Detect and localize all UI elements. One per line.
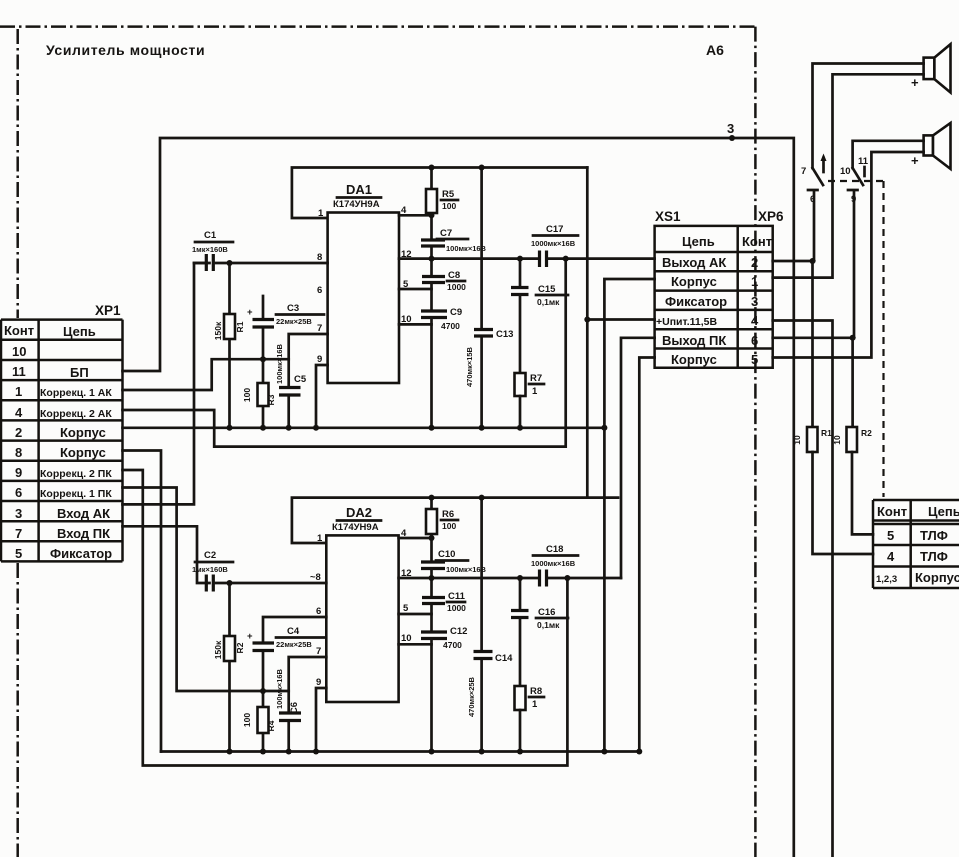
svg-text:1: 1 bbox=[751, 274, 758, 289]
svg-text:6: 6 bbox=[810, 194, 815, 205]
wire: XP1 pin 3 (Вход АК) to C1 bbox=[123, 263, 210, 504]
svg-text:22мк×25В: 22мк×25В bbox=[276, 317, 312, 326]
svg-text:1000: 1000 bbox=[447, 282, 466, 292]
svg-text:1: 1 bbox=[15, 384, 22, 399]
svg-text:Коррекц. 2 ПК: Коррекц. 2 ПК bbox=[40, 468, 112, 480]
capacitor C3 22мк x 25В bbox=[262, 296, 265, 359]
svg-text:7: 7 bbox=[801, 166, 806, 177]
resistor R4 100 bbox=[262, 691, 265, 752]
wire: speaker 1 return to XS1 pin 1 (Корпус) bbox=[773, 74, 924, 277]
junction C3/R3 node bbox=[260, 356, 266, 362]
wire: XS1 pin 6 (Выход ПК) row line left + riser to output 2 bbox=[621, 338, 655, 578]
svg-text:Корпус: Корпус bbox=[60, 445, 106, 460]
capacitor C17 1000мк x 16В (output electrolytic) bbox=[540, 251, 547, 268]
switch arrow symbol bbox=[822, 158, 825, 172]
svg-text:7: 7 bbox=[317, 323, 322, 334]
svg-text:100: 100 bbox=[442, 521, 456, 531]
svg-text:1: 1 bbox=[532, 699, 538, 710]
svg-text:R4: R4 bbox=[266, 720, 276, 731]
svg-text:100: 100 bbox=[242, 388, 252, 402]
svg-text:Цепь: Цепь bbox=[63, 324, 96, 339]
svg-text:С6: С6 bbox=[289, 702, 300, 714]
svg-text:Корпус: Корпус bbox=[671, 274, 717, 289]
svg-text:1мк×160В: 1мк×160В bbox=[192, 245, 228, 254]
svg-text:0,1мк: 0,1мк bbox=[537, 297, 560, 307]
connector table XS1 / XP6 bbox=[655, 209, 784, 368]
junction C4/R4 node bbox=[260, 688, 266, 694]
svg-text:7: 7 bbox=[316, 646, 321, 657]
svg-text:С12: С12 bbox=[450, 626, 467, 637]
svg-text:Фиксатор: Фиксатор bbox=[665, 294, 727, 309]
resistor R3 100 bbox=[262, 359, 265, 428]
resistor R1 (headphone series, 10) bbox=[807, 427, 818, 452]
capacitor C2 (input, 1мк x 160В) bbox=[206, 575, 213, 592]
svg-text:ХР6: ХР6 bbox=[758, 209, 784, 224]
frame: block boundary A6 dash-dot top bbox=[0, 25, 755, 28]
svg-text:Конт: Конт bbox=[877, 504, 907, 519]
svg-text:150к: 150к bbox=[213, 640, 223, 659]
resistor R5 100 bbox=[430, 168, 433, 241]
svg-text:С1: С1 bbox=[204, 230, 217, 241]
wire: XS1 pin 5 (Корпус) row line left + riser to ground rail 2 bbox=[639, 358, 654, 752]
svg-text:Корпус: Корпус bbox=[60, 425, 106, 440]
svg-text:Коррекц. 1 АК: Коррекц. 1 АК bbox=[40, 387, 112, 399]
junctions on ground rail 1 bbox=[227, 425, 233, 431]
wire: channel 2 top supply rail bbox=[292, 498, 618, 543]
wire: XP1 pin 11 (БП) to power bus, node 3, down to sheet bottom bbox=[123, 138, 794, 857]
svg-text:С9: С9 bbox=[450, 307, 462, 318]
svg-text:~8: ~8 bbox=[310, 572, 321, 583]
svg-text:11: 11 bbox=[858, 156, 869, 167]
svg-text:4700: 4700 bbox=[441, 321, 460, 331]
svg-text:С2: С2 bbox=[204, 550, 216, 561]
svg-text:R2: R2 bbox=[235, 642, 245, 653]
svg-text:470мк×15В: 470мк×15В bbox=[465, 346, 474, 387]
wire: XS1 pin 6 (Выход ПК) row to switch 2 line bbox=[773, 336, 853, 339]
capacitor C15 0,1мк bbox=[519, 259, 522, 287]
svg-text:С17: С17 bbox=[546, 224, 563, 235]
wire: DA1 pin 4 stub bbox=[399, 214, 432, 217]
resistor R1 150к bbox=[228, 263, 231, 428]
capacitor C7 100мк x 16В bbox=[421, 240, 445, 246]
mechanical link (dashed) bbox=[828, 181, 884, 497]
svg-text:4: 4 bbox=[751, 313, 759, 328]
svg-text:С18: С18 bbox=[546, 544, 563, 555]
junction C1/R1 bbox=[227, 260, 233, 266]
svg-text:100мк×16В: 100мк×16В bbox=[275, 343, 284, 384]
node 3 bbox=[729, 135, 735, 141]
svg-text:Усилитель мощности: Усилитель мощности bbox=[46, 42, 205, 58]
junction bbox=[584, 317, 590, 323]
svg-text:Коррекц. 1 ПК: Коррекц. 1 ПК bbox=[40, 488, 112, 500]
svg-text:С13: С13 bbox=[496, 329, 513, 340]
resistor R2 150к bbox=[228, 583, 231, 752]
svg-text:R7: R7 bbox=[530, 373, 542, 384]
svg-text:10: 10 bbox=[401, 633, 412, 644]
svg-text:10: 10 bbox=[832, 435, 842, 445]
capacitor C18 1000мк x 16В (output electrolytic) bbox=[540, 570, 547, 587]
svg-text:+: + bbox=[911, 153, 919, 168]
svg-text:ХР1: ХР1 bbox=[95, 303, 121, 318]
svg-text:ТЛФ: ТЛФ bbox=[920, 549, 948, 564]
svg-text:ХS1: ХS1 bbox=[655, 209, 681, 224]
svg-text:ТЛФ: ТЛФ bbox=[920, 528, 948, 543]
wire: XP1 pin 4 (Коррекц. 2 АК) to output 1 node bbox=[123, 259, 566, 447]
svg-text:R8: R8 bbox=[530, 686, 542, 697]
wire: DA1 pin 12 output stub / output 1 line to XS1 bbox=[399, 257, 539, 260]
wire: DA2 pin 12 output stub / output 2 line bbox=[399, 577, 539, 580]
svg-text:Выход ПК: Выход ПК bbox=[662, 333, 726, 348]
wire: DA1 pin 9 to ground rail bbox=[316, 365, 328, 428]
svg-text:К174УН9А: К174УН9А bbox=[333, 199, 380, 210]
svg-text:1000мк×16В: 1000мк×16В bbox=[531, 559, 576, 568]
svg-text:+: + bbox=[247, 631, 253, 642]
wire: DA1 pin 10 stub bbox=[399, 323, 432, 326]
loudspeaker BA1 (top) bbox=[911, 44, 951, 92]
svg-text:Выход АК: Выход АК bbox=[662, 255, 726, 270]
svg-text:С3: С3 bbox=[287, 303, 299, 314]
svg-text:5: 5 bbox=[403, 603, 409, 614]
svg-text:+Uпит.11,5В: +Uпит.11,5В bbox=[656, 316, 718, 328]
svg-text:R2: R2 bbox=[861, 428, 872, 438]
wire: XP1 pin 2 (Корпус) = channel 1 ground rail bbox=[123, 426, 605, 429]
svg-text:10: 10 bbox=[12, 344, 26, 359]
svg-text:+: + bbox=[247, 307, 253, 318]
capacitor C1 (input, 1мк x 160В) bbox=[194, 262, 206, 265]
junctions on output 2 line bbox=[429, 575, 435, 581]
resistor R6 100 bbox=[430, 498, 433, 562]
wire: +Uпит riser from rail 1 through XS1 pin 4 to channel 2 rail bbox=[586, 168, 589, 498]
junctions on ground rail 2 bbox=[227, 749, 233, 755]
svg-text:Корпус: Корпус bbox=[915, 570, 959, 585]
op-amp IC DA1 К174УН9А bbox=[328, 213, 399, 384]
svg-text:С8: С8 bbox=[448, 270, 460, 281]
svg-text:4700: 4700 bbox=[443, 640, 462, 650]
svg-text:100мк×16В: 100мк×16В bbox=[275, 668, 284, 709]
svg-text:+: + bbox=[911, 75, 919, 90]
junction C2/R2 bbox=[227, 580, 233, 586]
svg-text:С5: С5 bbox=[294, 374, 307, 385]
svg-text:100: 100 bbox=[242, 713, 252, 727]
svg-text:С14: С14 bbox=[495, 653, 513, 664]
svg-text:4: 4 bbox=[887, 549, 895, 564]
svg-text:Конт: Конт bbox=[742, 234, 772, 249]
svg-text:С16: С16 bbox=[538, 607, 555, 618]
svg-text:6: 6 bbox=[316, 606, 321, 617]
svg-text:5: 5 bbox=[887, 528, 894, 543]
svg-text:11: 11 bbox=[12, 364, 26, 379]
svg-text:1: 1 bbox=[532, 386, 538, 397]
svg-text:R6: R6 bbox=[442, 509, 454, 520]
svg-text:22мк×25В: 22мк×25В bbox=[276, 640, 312, 649]
capacitor C11 1000 bbox=[430, 578, 433, 597]
wire: DA2 pin 10 stub bbox=[399, 643, 432, 646]
frame: block boundary dash-dot left (interrupted by connector XP1) bbox=[16, 29, 19, 318]
svg-text:К174УН9А: К174УН9А bbox=[332, 522, 379, 533]
svg-text:С11: С11 bbox=[448, 591, 466, 602]
junctions on top rail 2 bbox=[429, 495, 435, 501]
svg-text:DA1: DA1 bbox=[346, 182, 372, 197]
svg-text:1000мк×16В: 1000мк×16В bbox=[531, 239, 576, 248]
wire: XS1 pin 4 (+Uпит) row line left bbox=[587, 318, 654, 321]
frame: block boundary A6 dash-dot right bbox=[754, 27, 757, 857]
wire: DA2 pin 5 stub bbox=[399, 613, 432, 616]
loudspeaker BA2 (bottom) bbox=[911, 123, 951, 169]
wire: DA2 pin 4 stub bbox=[399, 537, 432, 540]
svg-text:Коррекц. 2 АК: Коррекц. 2 АК bbox=[40, 408, 112, 420]
channel 2 ground rail bbox=[161, 750, 639, 753]
svg-text:100: 100 bbox=[442, 201, 456, 211]
wire: XP1 pin 1 (Коррекц. 1 АК) to C3/R3 node bbox=[123, 359, 289, 390]
wire: switch 2 line down to resistor R2 bbox=[853, 338, 854, 427]
svg-text:С7: С7 bbox=[440, 228, 452, 239]
capacitor C10 100мк x 16В bbox=[421, 562, 445, 569]
svg-text:3: 3 bbox=[727, 121, 734, 136]
connector table TLF (bottom right, cut off at edge) bbox=[873, 500, 959, 588]
wire: XP1 pin 6 (Коррекц. 1 ПК) to C4/R4 node bbox=[123, 488, 289, 692]
svg-text:10: 10 bbox=[792, 435, 802, 445]
svg-text:R1: R1 bbox=[235, 321, 245, 332]
svg-text:А6: А6 bbox=[706, 42, 724, 58]
svg-text:6: 6 bbox=[15, 485, 22, 500]
svg-text:3: 3 bbox=[15, 506, 22, 521]
capacitor C13 470мк x 15В (bootstrap) bbox=[480, 168, 483, 428]
svg-text:4: 4 bbox=[15, 405, 23, 420]
svg-text:Вход АК: Вход АК bbox=[57, 506, 110, 521]
capacitor C5 100мк x 16В bbox=[289, 334, 328, 428]
junctions on output 1 line bbox=[429, 256, 435, 262]
svg-text:9: 9 bbox=[851, 194, 856, 205]
wire: XS1 pin 4 (+Uпит) row right, power bus down to sheet bottom bbox=[773, 321, 833, 857]
svg-text:6: 6 bbox=[751, 333, 758, 348]
svg-text:R1: R1 bbox=[821, 428, 832, 438]
wire: XS1 pin 2 (Выход АК) row to switch line bbox=[773, 260, 813, 263]
wire: XS1 pin 1 (Корпус) riser joining both ground rails bbox=[604, 279, 654, 752]
capacitor C16 0,1мк bbox=[519, 578, 522, 610]
capacitor C4 22мк x 25В bbox=[263, 617, 326, 691]
op-amp IC DA2 К174УН9А bbox=[326, 535, 398, 702]
svg-text:БП: БП bbox=[70, 365, 89, 380]
capacitor C12 4700 bbox=[421, 632, 447, 639]
switch SA1.2 contacts 10-9 bbox=[853, 168, 863, 185]
capacitor C6 100мк x 16В bbox=[289, 657, 327, 752]
svg-text:DA2: DA2 bbox=[346, 505, 372, 520]
resistor R8 1 bbox=[515, 686, 526, 710]
svg-text:6: 6 bbox=[317, 285, 322, 296]
wire: DA2 pin 9 to ground rail bbox=[316, 688, 326, 752]
svg-text:Конт: Конт bbox=[4, 323, 34, 338]
svg-text:5: 5 bbox=[751, 352, 758, 367]
svg-text:Вход ПК: Вход ПК bbox=[57, 526, 110, 541]
wire: DA1 pin 5 stub bbox=[399, 288, 432, 291]
connector table XP1 bbox=[1, 303, 123, 561]
svg-text:8: 8 bbox=[15, 445, 22, 460]
svg-text:1,2,3: 1,2,3 bbox=[876, 574, 897, 585]
svg-text:Цепь: Цепь bbox=[682, 234, 715, 249]
svg-text:0,1мк: 0,1мк bbox=[537, 620, 560, 630]
svg-text:Фиксатор: Фиксатор bbox=[50, 546, 112, 561]
svg-text:10: 10 bbox=[840, 166, 851, 177]
svg-text:Цепь: Цепь bbox=[928, 504, 959, 519]
svg-text:470мк×25В: 470мк×25В bbox=[467, 676, 476, 717]
resistor R7 1 bbox=[515, 373, 526, 396]
svg-text:С15: С15 bbox=[538, 284, 556, 295]
wire: R1 to TLF table pin 4 bbox=[813, 452, 874, 554]
wire: speaker 2 return to XS1 pin 5 (Корпус) bbox=[773, 152, 924, 358]
svg-text:Корпус: Корпус bbox=[671, 352, 717, 367]
wire: XP1 pin 9 (Коррекц. 2 ПК) to output 2 node bbox=[123, 470, 568, 766]
svg-text:1мк×160В: 1мк×160В bbox=[192, 565, 228, 574]
svg-text:1: 1 bbox=[317, 533, 323, 544]
wire: XP1 pin 8 (Корпус) to channel 2 ground rail bbox=[123, 451, 162, 752]
capacitor C8 1000 bbox=[430, 259, 433, 276]
svg-text:150к: 150к bbox=[213, 321, 223, 340]
capacitor C9 4700 bbox=[421, 311, 447, 318]
wire: XP1 pin 7 (Вход ПК) to C2 bbox=[123, 526, 210, 583]
svg-text:9: 9 bbox=[15, 465, 22, 480]
svg-text:1000: 1000 bbox=[447, 603, 466, 613]
svg-text:2: 2 bbox=[15, 425, 22, 440]
capacitor C14 470мк x 25В (bootstrap) bbox=[480, 498, 483, 752]
svg-text:R5: R5 bbox=[442, 189, 455, 200]
svg-text:С10: С10 bbox=[438, 549, 455, 560]
wire: channel 1 top supply rail bbox=[292, 168, 587, 219]
wire: switch line down to resistor R1 bbox=[813, 261, 815, 427]
svg-text:2: 2 bbox=[751, 255, 758, 270]
svg-text:7: 7 bbox=[15, 526, 22, 541]
junctions on top rail 1 bbox=[429, 165, 435, 171]
switch SA1.1 contacts 7-6 (headphone jack break contact) bbox=[813, 168, 824, 185]
svg-text:С4: С4 bbox=[287, 626, 300, 637]
svg-text:R3: R3 bbox=[266, 394, 276, 405]
wire: R2 to TLF table pin 5 bbox=[852, 452, 873, 534]
svg-text:1: 1 bbox=[318, 208, 324, 219]
svg-text:9: 9 bbox=[316, 677, 321, 688]
resistor R2 (headphone series, 10) bbox=[847, 427, 858, 452]
svg-text:9: 9 bbox=[317, 354, 322, 365]
wire: speaker 2 hot lead to switch contact 10 bbox=[853, 141, 924, 168]
wire: speaker 1 hot lead to switch contact 7 bbox=[813, 64, 924, 169]
svg-text:3: 3 bbox=[751, 294, 758, 309]
svg-text:8: 8 bbox=[317, 252, 322, 263]
svg-text:5: 5 bbox=[15, 546, 22, 561]
